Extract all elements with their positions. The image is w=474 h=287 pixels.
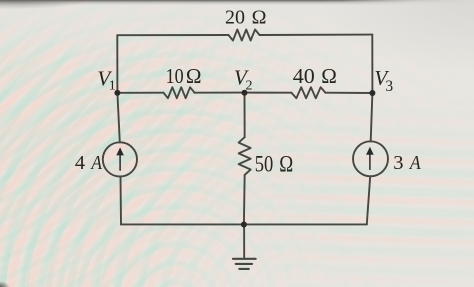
wire 50-ohm resistor down to bottom node: [243, 175, 246, 225]
label 4 A: [75, 152, 103, 174]
svg-text:1: 1: [109, 79, 116, 94]
label 10 ohm: [166, 64, 202, 88]
label node V3: [374, 66, 393, 95]
label node V2: [234, 66, 253, 94]
svg-text:Ω: Ω: [279, 151, 293, 177]
wire left vertical (V1 down to 4A source): [117, 93, 119, 143]
arrow of 3A current source: [366, 147, 374, 170]
resistor 40 ohm: [292, 87, 326, 98]
svg-text:50: 50: [255, 151, 274, 177]
label 40 ohm: [293, 64, 337, 88]
svg-text:3: 3: [393, 152, 403, 174]
wire middle left segment (V1 to 10-ohm resistor): [117, 92, 163, 94]
wire left vertical (4A source to bottom-left corner): [120, 176, 123, 224]
resistor 50 ohm: [239, 137, 251, 175]
wire top-left vertical (V1 to top-left corner): [116, 35, 118, 93]
node V2 junction dot: [242, 90, 248, 96]
node V1 junction dot: [114, 90, 120, 96]
wire top horizontal right segment (20-ohm resistor to top-right corner): [260, 34, 373, 36]
wire bottom horizontal: [121, 223, 367, 225]
svg-text:10: 10: [166, 64, 184, 88]
current source 3A circle: [353, 141, 388, 176]
resistor 10 ohm: [164, 87, 195, 98]
node bottom junction dot: [241, 222, 247, 228]
wire right vertical (V3 down to 3A source): [371, 93, 373, 141]
resistor 20 ohm: [229, 30, 260, 41]
svg-text:Ω: Ω: [321, 64, 337, 88]
wire V2 down to 50-ohm resistor: [244, 93, 246, 138]
label 3 A: [393, 152, 421, 174]
svg-text:Ω: Ω: [186, 64, 202, 88]
label 50 ohm: [255, 151, 294, 177]
svg-text:4: 4: [75, 152, 85, 174]
node V3 junction dot: [369, 90, 375, 96]
wire top-right vertical (top-right corner to V3): [371, 35, 373, 93]
svg-text:A: A: [90, 152, 103, 174]
svg-text:20: 20: [225, 7, 245, 29]
wire right vertical (3A source to bottom-right corner): [367, 176, 370, 224]
wire top horizontal left segment (corner to 20-ohm resistor): [117, 34, 228, 36]
label node V1: [97, 67, 115, 94]
svg-text:3: 3: [385, 78, 393, 95]
wire ground stem (bottom node to ground): [243, 224, 245, 258]
wire middle segment (40-ohm resistor to V3): [326, 92, 373, 94]
ground: [233, 259, 256, 269]
current source 4A circle: [103, 142, 137, 176]
svg-text:2: 2: [246, 78, 253, 93]
svg-text:A: A: [408, 152, 421, 174]
label 20 ohm: [225, 7, 266, 29]
svg-text:40: 40: [293, 64, 315, 88]
wire middle segment (10-ohm resistor to V2): [195, 92, 245, 94]
arrow of 4A current source: [116, 147, 124, 170]
wire middle segment (V2 to 40-ohm resistor): [245, 92, 292, 94]
svg-text:Ω: Ω: [252, 7, 267, 29]
